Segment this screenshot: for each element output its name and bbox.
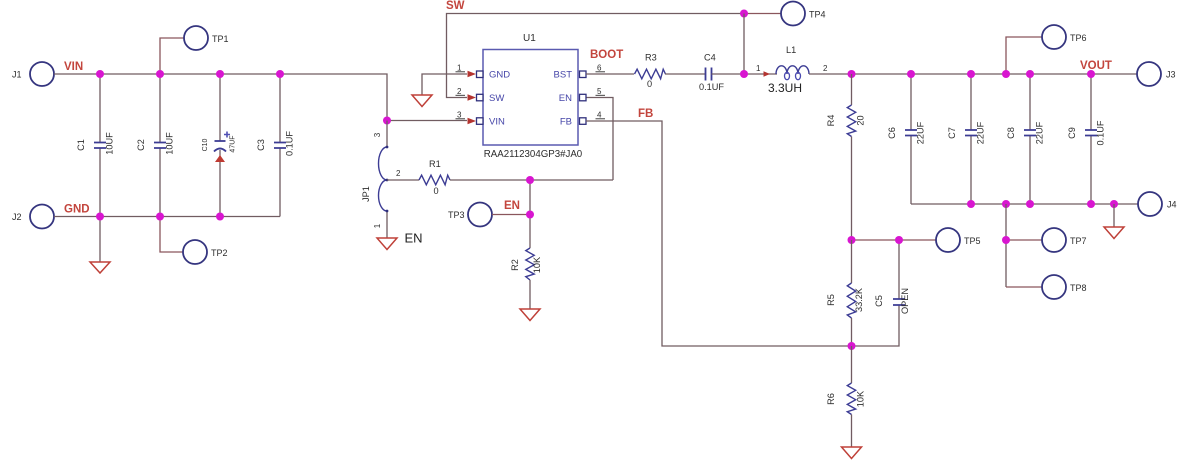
svg-text:TP5: TP5 xyxy=(964,236,981,246)
testpoint TP5 xyxy=(852,228,981,252)
op-amp U1 xyxy=(483,33,583,160)
svg-text:BOOT: BOOT xyxy=(590,49,623,61)
junction TP7 xyxy=(1002,236,1010,244)
svg-text:OPEN: OPEN xyxy=(900,288,910,314)
capacitor C7 xyxy=(947,74,986,204)
svg-text:20: 20 xyxy=(856,115,866,125)
junction VIN/JP1 xyxy=(383,117,391,125)
svg-text:22UF: 22UF xyxy=(1035,121,1045,144)
svg-text:C2: C2 xyxy=(136,139,146,151)
svg-text:1: 1 xyxy=(457,64,462,73)
svg-text:TP1: TP1 xyxy=(212,34,229,44)
svg-text:33.2K: 33.2K xyxy=(854,287,864,312)
svg-text:J4: J4 xyxy=(1167,200,1177,210)
testpoint TP3 xyxy=(448,203,530,227)
svg-text:RAA2112304GP3#JA0: RAA2112304GP3#JA0 xyxy=(484,149,583,160)
capacitor C10 (polarized) xyxy=(202,74,237,217)
resistor R1 xyxy=(387,159,613,196)
svg-text:R4: R4 xyxy=(826,115,836,127)
capacitor C5 xyxy=(852,240,911,346)
svg-text:3: 3 xyxy=(457,111,462,120)
svg-text:0: 0 xyxy=(434,186,439,196)
svg-text:U1: U1 xyxy=(523,33,536,44)
capacitor C1 xyxy=(76,74,115,217)
svg-text:0.1UF: 0.1UF xyxy=(285,131,295,156)
wire EN to pin5 xyxy=(586,98,613,181)
svg-text:C8: C8 xyxy=(1006,127,1016,139)
junction BOOT/SW xyxy=(740,70,748,78)
testpoint TP6 xyxy=(1006,25,1087,74)
svg-text:TP8: TP8 xyxy=(1070,283,1087,293)
svg-text:EN: EN xyxy=(405,231,423,246)
ground (R6) xyxy=(842,447,862,459)
svg-text:10K: 10K xyxy=(532,256,542,273)
svg-text:SW: SW xyxy=(446,0,465,12)
svg-text:C5: C5 xyxy=(874,295,884,307)
svg-text:R5: R5 xyxy=(826,294,836,306)
svg-text:C6: C6 xyxy=(887,127,897,139)
svg-text:2: 2 xyxy=(823,64,828,73)
svg-text:0.1UF: 0.1UF xyxy=(1096,120,1106,145)
resistor R4 xyxy=(826,74,866,240)
svg-text:FB: FB xyxy=(560,117,572,128)
svg-text:VIN: VIN xyxy=(64,61,83,73)
svg-text:22UF: 22UF xyxy=(976,121,986,144)
U1 pin 6 xyxy=(580,64,606,78)
capacitor C2 xyxy=(136,74,175,217)
svg-text:10K: 10K xyxy=(856,390,866,407)
capacitor C8 xyxy=(1006,74,1045,204)
U1 pin 2 xyxy=(456,87,484,101)
junction SW/TP4 xyxy=(740,10,748,18)
junction EN/TP3 xyxy=(526,211,534,219)
svg-text:3.3UH: 3.3UH xyxy=(768,81,802,95)
svg-text:GND: GND xyxy=(489,70,510,81)
wire C1 to ground xyxy=(99,217,101,263)
svg-text:2: 2 xyxy=(457,87,462,96)
connector J4 xyxy=(1138,192,1177,216)
svg-text:JP1: JP1 xyxy=(361,186,371,202)
svg-text:C7: C7 xyxy=(947,127,957,139)
junction L1/R4 xyxy=(848,70,856,78)
wire EN column xyxy=(529,180,531,248)
wire output ground rail xyxy=(911,203,1138,205)
capacitor C6 xyxy=(887,74,926,204)
junctions VOUT rail xyxy=(907,70,1095,78)
connector J1 xyxy=(12,62,54,86)
wire U1 GND pin to ground xyxy=(422,74,467,95)
connector J2 xyxy=(12,205,54,229)
ground (JP1 / EN) xyxy=(377,238,397,250)
svg-text:TP4: TP4 xyxy=(809,10,826,20)
svg-text:C9: C9 xyxy=(1067,127,1077,139)
svg-text:R1: R1 xyxy=(429,159,441,169)
wire TP7/TP8 column xyxy=(1005,204,1007,287)
ground (R2) xyxy=(520,309,540,321)
wire C4 to L1 xyxy=(712,73,778,75)
svg-text:SW: SW xyxy=(489,93,504,104)
svg-text:R2: R2 xyxy=(510,259,520,271)
connector J3 xyxy=(1137,62,1176,86)
resistor R6 xyxy=(826,346,866,447)
U1 pin 4 xyxy=(580,111,606,125)
wire VIN to U1 pin3 xyxy=(387,120,467,122)
junction FB/R5/R6 xyxy=(848,342,856,350)
testpoint TP7 xyxy=(1006,228,1087,252)
capacitor C9 xyxy=(1067,74,1106,204)
svg-text:3: 3 xyxy=(373,132,382,137)
svg-text:J2: J2 xyxy=(12,212,22,222)
svg-text:1: 1 xyxy=(756,64,761,73)
jumper JP1 xyxy=(361,121,401,239)
junctions ground rail xyxy=(967,200,1118,208)
svg-text:1: 1 xyxy=(373,223,382,228)
svg-text:C1: C1 xyxy=(76,139,86,151)
svg-text:C3: C3 xyxy=(256,139,266,151)
U1 pin 5 xyxy=(580,87,606,101)
wire BST to R3 xyxy=(586,73,634,75)
svg-text:5: 5 xyxy=(597,87,602,96)
svg-text:R3: R3 xyxy=(645,53,657,63)
testpoint TP8 xyxy=(1006,275,1087,299)
svg-text:TP7: TP7 xyxy=(1070,236,1087,246)
wire L1 to VOUT rail xyxy=(809,73,1137,75)
wire R3 to C4 xyxy=(665,73,705,75)
svg-text:C10: C10 xyxy=(202,138,209,151)
capacitor C4 xyxy=(699,53,724,93)
svg-text:FB: FB xyxy=(638,108,653,120)
wire GND rail xyxy=(54,216,280,218)
U1 pin 1 xyxy=(456,64,484,78)
svg-text:10UF: 10UF xyxy=(165,132,175,155)
svg-text:4: 4 xyxy=(597,111,602,120)
svg-text:22UF: 22UF xyxy=(916,121,926,144)
resistor R2 xyxy=(510,248,542,309)
resistor R5 xyxy=(826,240,864,346)
wire VIN rail xyxy=(54,74,387,121)
ground (input) xyxy=(90,262,110,273)
testpoint TP2 xyxy=(160,217,228,265)
testpoint TP1 xyxy=(160,26,229,74)
svg-text:2: 2 xyxy=(396,169,401,178)
svg-text:J3: J3 xyxy=(1166,70,1176,80)
svg-text:VIN: VIN xyxy=(489,117,505,128)
junction EN/R1 xyxy=(526,176,534,184)
svg-text:J1: J1 xyxy=(12,70,22,80)
svg-text:GND: GND xyxy=(64,204,90,216)
junction R4/R5/TP5 xyxy=(848,236,856,244)
svg-text:TP3: TP3 xyxy=(448,210,465,220)
junction C5/TP5 xyxy=(895,236,903,244)
U1 pin 3 xyxy=(456,111,484,125)
svg-text:47UF: 47UF xyxy=(230,135,237,152)
resistor R3 xyxy=(635,53,666,90)
ground (U1 pin1) xyxy=(412,95,432,107)
svg-text:EN: EN xyxy=(559,93,572,104)
svg-text:L1: L1 xyxy=(786,45,796,55)
svg-text:TP6: TP6 xyxy=(1070,33,1087,43)
svg-text:0: 0 xyxy=(647,79,652,89)
inductor L1 xyxy=(756,45,828,95)
svg-text:R6: R6 xyxy=(826,393,836,405)
svg-text:10UF: 10UF xyxy=(105,132,115,155)
testpoint TP4 xyxy=(744,2,826,26)
junction dots left xyxy=(96,70,284,221)
svg-text:VOUT: VOUT xyxy=(1080,60,1112,72)
wire SW to BOOT rail xyxy=(743,14,745,75)
svg-text:EN: EN xyxy=(504,200,520,212)
svg-text:C4: C4 xyxy=(704,53,716,63)
wire FB net xyxy=(586,121,852,346)
wire / ground (output rail) xyxy=(1113,204,1115,227)
svg-text:0.1UF: 0.1UF xyxy=(699,82,724,92)
capacitor C3 xyxy=(256,74,295,217)
svg-text:TP2: TP2 xyxy=(211,248,228,258)
svg-text:BST: BST xyxy=(554,70,573,81)
svg-text:6: 6 xyxy=(597,64,602,73)
wire SW net xyxy=(447,14,745,98)
